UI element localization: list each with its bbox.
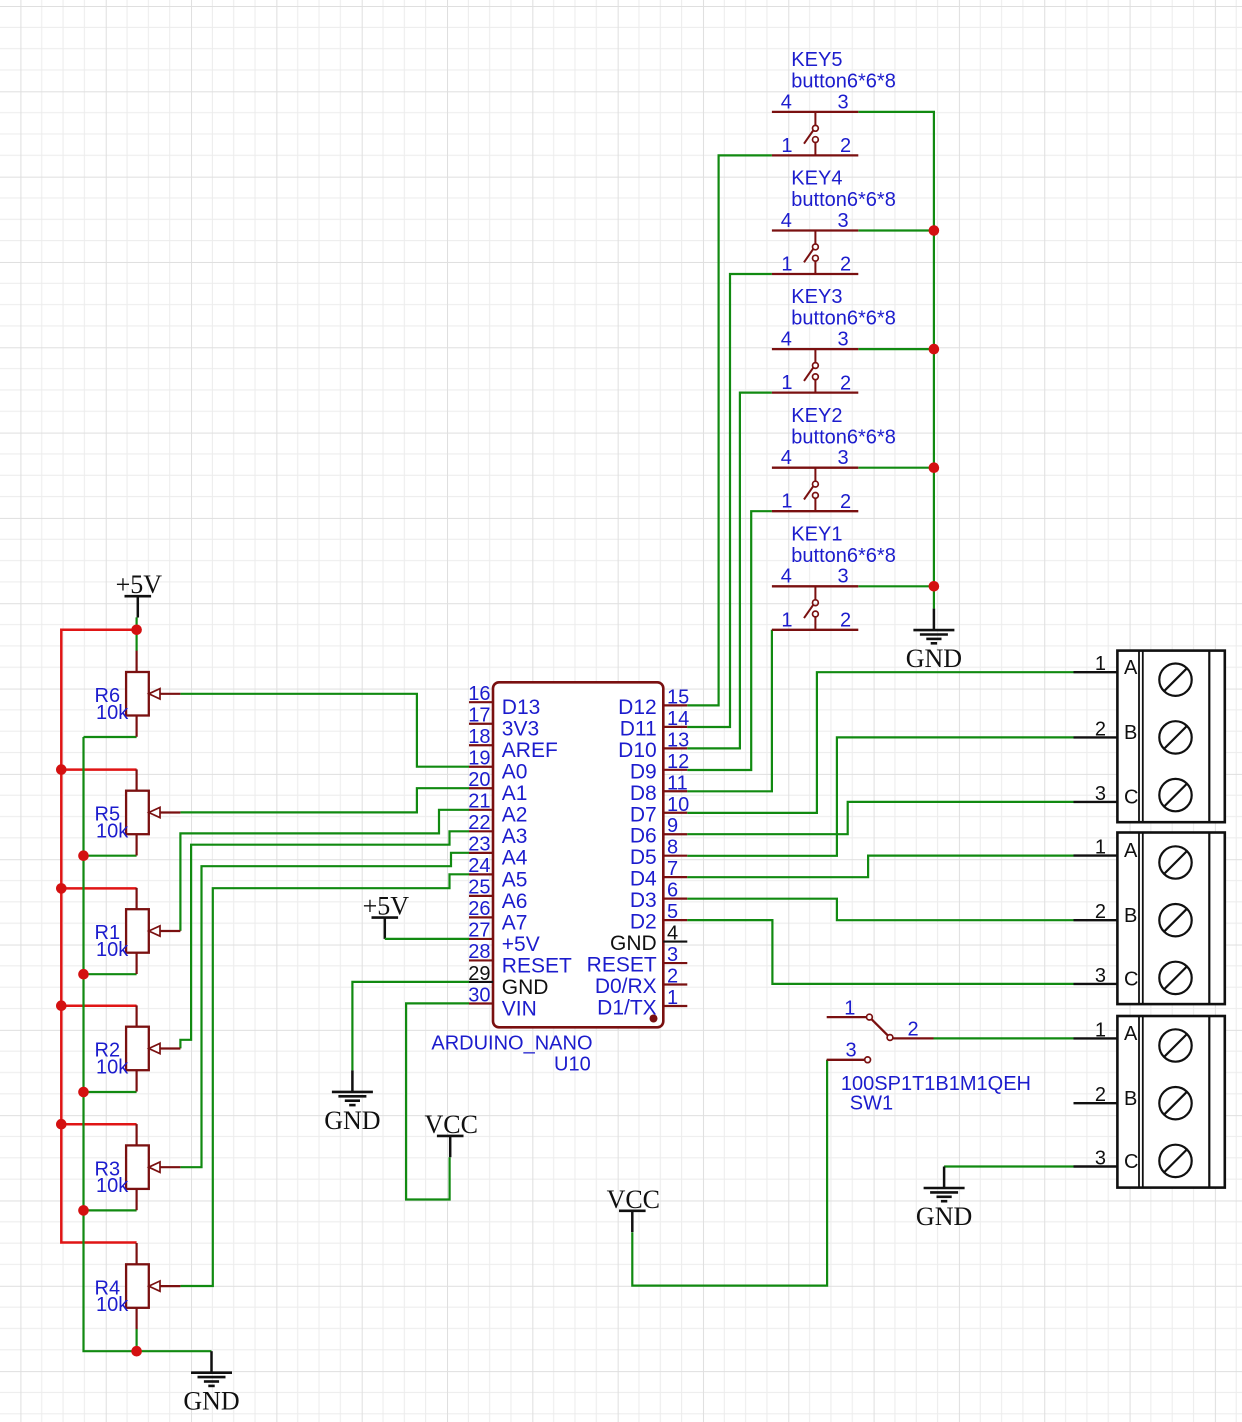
ground bottom left [183, 1351, 239, 1416]
pin 14 D11 right [620, 708, 690, 741]
svg-text:3: 3 [1095, 1148, 1106, 1170]
wire KEY2 pin1 to D9 [687, 511, 772, 770]
svg-text:11: 11 [667, 772, 688, 794]
pin 2 B [1074, 1102, 1118, 1104]
wire KEY3 pin3 to bus [858, 348, 934, 350]
svg-text:3: 3 [845, 1040, 856, 1062]
wire KEY4 pin1 to D11 [687, 274, 772, 727]
wire D6 to CN1 pin3 [687, 802, 1073, 834]
svg-text:16: 16 [468, 683, 490, 705]
transistor KEY2 pushbutton button6*6*8 [772, 405, 896, 513]
svg-text:KEY4: KEY4 [791, 168, 842, 190]
svg-text:B: B [1124, 722, 1137, 744]
wire red branch to R3 [61, 1123, 136, 1126]
svg-text:GND: GND [916, 1202, 972, 1231]
svg-text:GND: GND [183, 1387, 239, 1416]
power flag VCC SW [607, 1185, 660, 1232]
svg-text:10k: 10k [96, 702, 129, 724]
wire R2 wiper to A3 [180, 831, 469, 1048]
svg-text:2: 2 [667, 966, 678, 988]
svg-text:D6: D6 [630, 825, 657, 848]
svg-text:2: 2 [1095, 901, 1106, 923]
svg-text:D9: D9 [630, 760, 657, 783]
pin 3 C [1074, 801, 1118, 803]
pin 4 GND right [610, 923, 687, 956]
svg-text:20: 20 [468, 769, 490, 791]
svg-text:A5: A5 [502, 868, 528, 891]
node green bus R5 bottom [78, 850, 89, 861]
svg-text:4: 4 [781, 210, 792, 232]
pin 26 A7 left [468, 898, 527, 934]
svg-text:button6*6*8: button6*6*8 [791, 71, 896, 93]
svg-text:13: 13 [667, 729, 689, 751]
svg-text:5: 5 [667, 901, 678, 923]
svg-text:9: 9 [667, 815, 678, 837]
svg-text:D2: D2 [630, 911, 657, 934]
node D1/TX pin dot [650, 1015, 658, 1023]
pin 1 A [1074, 1037, 1118, 1039]
node red bus R2 branch [56, 1000, 67, 1011]
svg-text:4: 4 [781, 91, 792, 113]
svg-text:AREF: AREF [502, 739, 558, 762]
wire R2 bottom to bus [84, 1091, 137, 1093]
svg-text:D1/TX: D1/TX [597, 996, 657, 1019]
svg-text:1: 1 [1095, 653, 1106, 675]
wire KEY4 pin3 to bus [858, 229, 934, 231]
svg-text:KEY5: KEY5 [791, 49, 842, 71]
svg-text:25: 25 [468, 877, 490, 899]
svg-text:15: 15 [667, 686, 689, 708]
pin 1 A [1074, 671, 1118, 673]
pin 23 A4 left [468, 834, 528, 870]
svg-text:26: 26 [468, 898, 490, 920]
svg-text:1: 1 [1095, 1019, 1106, 1041]
svg-text:D13: D13 [502, 696, 541, 719]
node +5V junction at R6 top [131, 625, 142, 636]
svg-text:2: 2 [840, 135, 851, 157]
transistor KEY1 pushbutton button6*6*8 [772, 523, 896, 631]
svg-text:D7: D7 [630, 803, 657, 826]
svg-text:A3: A3 [502, 825, 528, 848]
svg-text:12: 12 [667, 751, 689, 773]
svg-text:19: 19 [468, 748, 490, 770]
svg-text:B: B [1124, 905, 1137, 927]
svg-text:KEY2: KEY2 [791, 405, 842, 427]
pin 8 D5 right [630, 837, 687, 870]
node bus junction KEY4 [929, 225, 940, 236]
wire R4 wiper to A5 [180, 874, 469, 1286]
op-amp U1 ARDUINO_NANO U10 body [493, 682, 663, 1027]
pin 2 B [1074, 919, 1118, 921]
pin 30 VIN left [468, 984, 537, 1020]
svg-text:RESET: RESET [502, 954, 572, 977]
pin 27 +5V left [468, 920, 540, 956]
node green bus R2 bottom [78, 1087, 89, 1098]
wire R4 bottom green [136, 1329, 138, 1351]
ground chip [324, 1070, 380, 1135]
connector CN1 screw terminal [1074, 651, 1225, 823]
svg-text:1: 1 [781, 491, 792, 513]
svg-text:2: 2 [840, 491, 851, 513]
node red bus R1 branch [56, 883, 67, 894]
svg-text:RESET: RESET [587, 954, 657, 977]
svg-text:7: 7 [667, 858, 678, 880]
svg-text:GND: GND [610, 932, 657, 955]
svg-text:22: 22 [468, 812, 490, 834]
transistor KEY3 pushbutton button6*6*8 [772, 286, 896, 394]
pin 3 C [1074, 983, 1118, 985]
resistor R2 10k potentiometer [95, 1005, 181, 1091]
node bus junction KEY1 [929, 581, 940, 592]
svg-text:10k: 10k [96, 939, 129, 961]
connector CN3 screw terminal [1074, 1016, 1225, 1188]
node green bus R4 bottom [131, 1346, 142, 1357]
wire KEY1 pin3 to bus [858, 585, 934, 587]
svg-text:A: A [1124, 840, 1138, 862]
node green bus R1 bottom [78, 969, 89, 980]
ground keys [906, 609, 962, 674]
wire red branch to R1 [61, 887, 136, 890]
svg-text:3V3: 3V3 [502, 718, 539, 741]
svg-text:10: 10 [667, 794, 689, 816]
wire KEY1 pin1 to D8 [687, 630, 772, 792]
svg-text:+5V: +5V [502, 933, 540, 956]
svg-text:30: 30 [468, 984, 490, 1006]
wire D2 to CN2 pin3 [687, 920, 1073, 984]
pin 29 GND left [468, 963, 548, 999]
svg-text:GND: GND [324, 1106, 380, 1135]
power flag +5V pin27 [363, 892, 410, 939]
svg-text:3: 3 [667, 944, 678, 966]
svg-text:button6*6*8: button6*6*8 [791, 189, 896, 211]
wire +5V flag to pin27 [385, 938, 469, 940]
svg-text:D12: D12 [618, 696, 657, 719]
svg-text:21: 21 [468, 791, 490, 813]
wire +5V red bus [61, 630, 136, 1243]
svg-text:2: 2 [840, 254, 851, 276]
pin 21 A2 left [468, 791, 527, 827]
svg-text:2: 2 [907, 1019, 918, 1041]
svg-text:B: B [1124, 1088, 1137, 1110]
svg-text:KEY1: KEY1 [791, 523, 842, 545]
pin 17 3V3 left [468, 705, 539, 741]
pin 18 AREF left [468, 726, 558, 762]
node red bus R3 branch [56, 1119, 67, 1130]
wire pin30 VIN to VCC [406, 1003, 469, 1199]
pin 11 D8 right [630, 772, 688, 805]
svg-text:A7: A7 [502, 911, 528, 934]
power flag VCC chip [424, 1110, 477, 1157]
svg-text:C: C [1124, 969, 1138, 991]
svg-text:3: 3 [1095, 965, 1106, 987]
pin 24 A5 left [468, 855, 527, 891]
node green bus R3 bottom [78, 1205, 89, 1216]
svg-text:24: 24 [468, 855, 490, 877]
svg-text:GND: GND [906, 644, 962, 673]
wire R6 wiper to A0 [180, 694, 469, 767]
svg-text:button6*6*8: button6*6*8 [791, 426, 896, 448]
wire D7 to CN1 pin1 [687, 672, 1073, 813]
svg-text:D4: D4 [630, 868, 657, 891]
svg-text:14: 14 [667, 708, 689, 730]
pin 5 D2 right [630, 901, 687, 934]
pin 2 B [1074, 736, 1118, 738]
wire SW1 pin2 to CN3 pin1 [934, 1037, 1074, 1039]
wire keys GND bus right [858, 112, 934, 609]
svg-text:1: 1 [781, 254, 792, 276]
svg-text:4: 4 [667, 923, 678, 945]
wire R5 bottom to bus [84, 855, 137, 857]
wire red branch to R2 [61, 1004, 136, 1007]
svg-text:2: 2 [1095, 718, 1106, 740]
svg-text:button6*6*8: button6*6*8 [791, 545, 896, 567]
wire D3 to CN2 pin2 [687, 899, 1073, 921]
svg-text:4: 4 [781, 566, 792, 588]
pin 1 A [1074, 854, 1118, 856]
resistor R5 10k potentiometer [95, 769, 181, 855]
pin 12 D9 right [630, 751, 689, 784]
svg-text:1: 1 [844, 998, 855, 1020]
svg-text:+5V: +5V [363, 892, 410, 921]
wire GND green bus left [84, 737, 212, 1351]
svg-text:1: 1 [667, 987, 678, 1009]
node bus junction KEY2 [929, 462, 940, 473]
svg-text:28: 28 [468, 941, 490, 963]
svg-text:D3: D3 [630, 889, 657, 912]
svg-text:D8: D8 [630, 782, 657, 805]
wire R3 wiper to A4 [180, 853, 469, 1167]
svg-text:1: 1 [1095, 837, 1106, 859]
svg-text:3: 3 [838, 329, 849, 351]
pin 1 D1/TX right [597, 987, 687, 1020]
pin 19 A0 left [468, 748, 527, 784]
svg-text:VCC: VCC [607, 1185, 660, 1214]
svg-text:4: 4 [781, 329, 792, 351]
wire D5 to CN1 pin2 [687, 737, 1073, 855]
svg-text:D5: D5 [630, 846, 657, 869]
wire red branch to R5 [61, 768, 136, 771]
pin 9 D6 right [630, 815, 687, 848]
svg-text:A1: A1 [502, 782, 528, 805]
svg-text:1: 1 [781, 609, 792, 631]
svg-text:button6*6*8: button6*6*8 [791, 308, 896, 330]
svg-text:A6: A6 [502, 890, 528, 913]
pin 22 A3 left [468, 812, 527, 848]
svg-text:17: 17 [468, 705, 490, 727]
wire R6 bottom to bus [84, 736, 137, 738]
svg-text:VCC: VCC [424, 1110, 477, 1139]
svg-text:D0/RX: D0/RX [595, 975, 657, 998]
wire R1 wiper to A2 [180, 810, 469, 931]
pin 15 D12 right [618, 686, 689, 719]
wire R3 bottom to bus [84, 1209, 137, 1211]
transistor KEY4 pushbutton button6*6*8 [772, 168, 896, 276]
wire pin29 to GND [352, 982, 469, 1071]
resistor R6 10k potentiometer [95, 651, 181, 737]
node bus junction KEY3 [929, 344, 940, 355]
svg-text:18: 18 [468, 726, 490, 748]
svg-text:8: 8 [667, 837, 678, 859]
svg-text:D10: D10 [618, 739, 657, 762]
svg-text:6: 6 [667, 880, 678, 902]
svg-text:1: 1 [781, 135, 792, 157]
svg-text:10k: 10k [96, 821, 129, 843]
svg-text:C: C [1124, 787, 1138, 809]
pin 3 RESET right [587, 944, 688, 977]
node red bus R5 branch [56, 764, 67, 775]
svg-text:VIN: VIN [502, 997, 537, 1020]
svg-text:10k: 10k [96, 1294, 129, 1316]
wire CN3 pin3 to GND [944, 1165, 1073, 1167]
svg-text:1: 1 [781, 372, 792, 394]
power flag +5V top [116, 570, 163, 617]
svg-text:ARDUINO_NANO: ARDUINO_NANO [431, 1033, 592, 1055]
svg-text:27: 27 [468, 920, 490, 942]
wire VCC to SW1 pin3 [632, 1060, 827, 1286]
wire R5 wiper to A1 [180, 788, 469, 812]
wire D4 to CN2 pin1 [687, 856, 1073, 878]
svg-text:3: 3 [838, 91, 849, 113]
svg-text:A4: A4 [502, 847, 528, 870]
pin 7 D4 right [630, 858, 687, 891]
pin 3 C [1074, 1165, 1118, 1167]
pin 20 A1 left [468, 769, 527, 805]
svg-text:2: 2 [1095, 1084, 1106, 1106]
transistor KEY5 pushbutton button6*6*8 [772, 49, 896, 157]
wire R1 bottom to bus [84, 973, 137, 975]
svg-text:3: 3 [838, 210, 849, 232]
svg-text:10k: 10k [96, 1175, 129, 1197]
pin 28 RESET left [468, 941, 572, 977]
svg-text:23: 23 [468, 834, 490, 856]
svg-text:D11: D11 [620, 717, 657, 740]
pin 2 D0/RX right [595, 966, 687, 999]
svg-text:+5V: +5V [116, 570, 163, 599]
svg-text:A2: A2 [502, 804, 528, 827]
svg-text:2: 2 [840, 372, 851, 394]
wire KEY2 pin3 to bus [858, 467, 934, 469]
pin 6 D3 right [630, 880, 687, 913]
svg-text:GND: GND [502, 976, 549, 999]
svg-text:3: 3 [838, 447, 849, 469]
wire +5V tap green [136, 617, 138, 651]
svg-text:4: 4 [781, 447, 792, 469]
svg-text:A0: A0 [502, 761, 528, 784]
svg-text:3: 3 [838, 566, 849, 588]
svg-text:2: 2 [840, 610, 851, 632]
svg-text:10k: 10k [96, 1057, 129, 1079]
pin 25 A6 left [468, 877, 527, 913]
svg-text:C: C [1124, 1151, 1138, 1173]
svg-text:U10: U10 [554, 1054, 591, 1076]
wire KEY5 pin1 to D12 [687, 155, 772, 705]
svg-text:A: A [1124, 1023, 1138, 1045]
svg-text:29: 29 [468, 963, 490, 985]
svg-text:3: 3 [1095, 783, 1106, 805]
ground SW [916, 1167, 972, 1232]
pin 16 D13 left [468, 683, 540, 719]
resistor R1 10k potentiometer [95, 888, 181, 974]
pin 13 D10 right [618, 729, 689, 762]
svg-text:SW1: SW1 [850, 1093, 893, 1115]
pin 10 D7 right [630, 794, 689, 827]
connector CN2 screw terminal [1074, 833, 1225, 1005]
svg-text:KEY3: KEY3 [791, 286, 842, 308]
svg-text:A: A [1124, 657, 1138, 679]
transistor SW1 switch 100SP1T1B1M1QEH [827, 998, 1031, 1115]
resistor R4 10k potentiometer [95, 1243, 181, 1329]
wire KEY3 pin1 to D10 [687, 393, 772, 749]
resistor R3 10k potentiometer [95, 1124, 181, 1210]
